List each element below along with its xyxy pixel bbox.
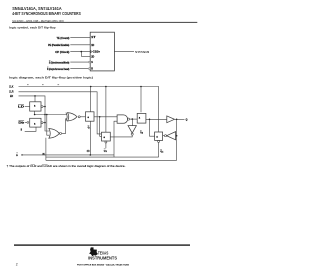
inverter down G6 [110,119,136,137]
wire clock drop to FF3 [105,87,107,133]
wire FF2 out drop to FF4 [150,119,155,136]
footer rule [14,244,190,245]
svg-text:INSTRUMENTS: INSTRUMENTS [88,256,117,261]
flip-flop latch box FF4 [155,132,163,157]
gate G2 (NAND, IEC box) [30,118,45,127]
svg-text:2: 2 [16,263,18,267]
wire NOR underside down [45,138,47,161]
svg-text:s: s [21,129,23,132]
wire FF1 bottom to L1 [87,121,91,155]
wire FF1 out to NAND [94,116,117,136]
svg-text:3: 3 [106,151,107,153]
wire clock drop to FF2 [140,87,142,113]
label under FF2 [140,130,143,135]
svg-text:logic symbol, each D/T flip-fl: logic symbol, each D/T flip-flop [9,25,56,29]
wire V2 to NOR lower input [46,114,49,136]
svg-text:R (Asynchronous Reset): R (Asynchronous Reset) [47,68,69,71]
gate NAND G5 (distinctive) [117,115,137,123]
input PE (Parallel Enable) [48,44,94,47]
svg-text:PE (Parallel Enable): PE (Parallel Enable) [48,44,69,47]
flip-flop latch box FF3 [102,132,111,148]
svg-text:(1): (1) [87,151,90,153]
label beside FF4 output [160,149,163,154]
svg-text:&: & [104,137,106,139]
svg-text:D: D [16,155,18,157]
doc number line [12,19,197,23]
svg-text:S (Synchronous/Mode): S (Synchronous/Mode) [49,61,70,64]
wire buffer out feedback drop [176,119,178,160]
svg-text:CLR: CLR [9,92,14,94]
svg-text:TE (Count): TE (Count) [57,37,70,40]
input label CLK [9,84,59,88]
gate G1 (NAND, IEC box) [30,102,45,111]
svg-text:CP (Clock): CP (Clock) [55,51,69,54]
TI logo Texas map [89,247,98,256]
gate NOR G3 [49,119,67,139]
svg-text:EN: EN [10,96,14,98]
svg-text:&: & [156,137,158,139]
wire T3 [19,95,50,131]
svg-text:LD: LD [18,106,25,109]
svg-text:(6): (6) [42,154,45,156]
TI wordmark [88,250,117,260]
svg-text:Q: Q [186,120,188,122]
svg-text:R: R [91,68,93,71]
svg-text:&: & [88,117,90,119]
wire L3 [46,159,177,161]
svg-text:Q (Output): Q (Output) [135,51,149,54]
gate XOR G4 [66,113,86,121]
wire L2 [46,156,159,158]
input label LD [18,104,30,108]
svg-text:4-BIT SYNCHRONOUS BINARY COUNT: 4-BIT SYNCHRONOUS BINARY COUNTERS [12,11,81,16]
flip-flop symbol box U1 [90,32,114,71]
svg-text:Db: Db [18,122,25,125]
wire NAND lower input from L2 riser [114,121,117,157]
flip-flop latch box FF2 [137,113,146,123]
wire T1 clock distribution [19,86,159,132]
input R (Asynchronous Reset) active low [47,67,93,71]
input label Db [18,120,28,124]
svg-text:&: & [139,117,141,119]
svg-text:POST OFFICE BOX 655303 • DALLA: POST OFFICE BOX 655303 • DALLAS, TEXAS 7… [77,264,130,267]
wire L1 with input D [16,153,114,157]
svg-text:† The outputs of CLR and LOAD: † The outputs of CLR and LOAD are shown … [7,164,126,168]
wire T2 [19,92,102,134]
wire G1 bottom to H1 [35,111,67,114]
svg-text:S: S [91,61,93,64]
input label s bar [21,127,36,132]
input TE (Count) [57,36,97,40]
wire clock drop to FF1 [90,87,92,112]
svg-text:logic diagram, each D/T flip-f: logic diagram, each D/T flip-flop (posit… [9,76,93,80]
svg-text:&: & [34,106,36,108]
svg-text:1T: 1T [91,36,96,39]
svg-text:2: 2 [142,133,143,135]
svg-text:C1/2+: C1/2+ [93,51,101,54]
label under FF3 [104,149,107,154]
svg-text:4: 4 [162,151,163,154]
svg-text:&: & [34,124,36,126]
input S (Synchronous Mode) active low [49,60,93,64]
svg-text:CLK: CLK [9,86,14,88]
flip-flop latch box FF1 [86,112,95,121]
svg-text:1D: 1D [91,44,94,47]
footnote overbars [31,163,35,165]
output Q [114,51,149,54]
buffer G7 [167,116,188,123]
input CP (Clock) with branch node [55,51,100,59]
label under FF1 [88,125,91,130]
wire FF2 out to buffer [146,119,167,121]
header title [12,6,81,16]
svg-text:2D: 2D [91,55,94,58]
inverter left G8 [163,132,177,140]
